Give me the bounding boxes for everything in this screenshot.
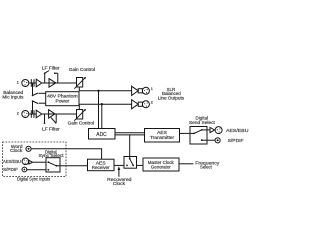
svg-text:Select: Select <box>200 164 212 170</box>
wire CH2 to ADC <box>101 104 103 128</box>
mic input connector J1 <box>22 80 29 87</box>
AES input plug <box>29 160 33 164</box>
svg-text:Gain Control: Gain Control <box>69 67 95 73</box>
label Digital Sync Select <box>38 150 64 159</box>
SPDIF output connector RCA <box>215 138 220 143</box>
Master Clock Generator box U4 <box>143 158 179 171</box>
capacitor bars CH2 <box>31 110 34 118</box>
svg-text:LF Filter: LF Filter <box>42 65 60 71</box>
svg-text:Generator: Generator <box>151 164 171 170</box>
label Word Clock <box>10 144 23 154</box>
svg-text:Receiver: Receiver <box>92 165 110 171</box>
svg-text:1: 1 <box>151 87 153 91</box>
svg-text:LF Filter: LF Filter <box>42 126 60 132</box>
svg-text:Gain Control: Gain Control <box>68 120 94 126</box>
wire frequency select <box>179 163 193 165</box>
LF filter switch CH1 <box>44 71 58 84</box>
line out connector XLR2 <box>142 101 149 108</box>
wire sync switch to AES receiver <box>56 165 87 167</box>
recovered clock pointer arrow <box>118 166 121 177</box>
label Balanced Mic Inputs <box>2 90 24 101</box>
wire word clock to AES receiver <box>31 149 102 159</box>
svg-text:Mic Inputs: Mic Inputs <box>2 95 24 101</box>
digital sync inputs dashed box <box>3 142 67 177</box>
label XLR Balanced Line Outputs <box>158 87 185 101</box>
wire recovered clock <box>114 164 124 166</box>
wire clock switch to master clock generator <box>137 164 144 166</box>
amp A2 CH1 <box>49 79 56 88</box>
svg-text:Transmitter: Transmitter <box>150 135 175 141</box>
svg-text:Clock: Clock <box>113 181 126 187</box>
svg-text:2: 2 <box>151 100 153 104</box>
svg-text:ADC: ADC <box>96 132 106 138</box>
AES EBU input connector <box>22 158 29 165</box>
line out barrel CH1 <box>138 89 142 93</box>
mic input connector J2 <box>22 111 29 118</box>
preamp A1 <box>36 79 42 87</box>
ADC box U1 <box>89 129 116 140</box>
wire SPDIF in to sync switch <box>27 169 46 171</box>
wire clock branch to clock switch <box>129 135 131 157</box>
wire AES in to sync switch <box>33 161 46 163</box>
svg-text:S/PDIF: S/PDIF <box>3 167 18 173</box>
AES Receiver box U3 <box>88 159 115 171</box>
wire CH1 to ADC <box>98 91 100 129</box>
svg-text:Clock: Clock <box>10 148 23 154</box>
amp A4 CH2 <box>49 110 55 118</box>
wire <box>29 113 36 115</box>
gain control pot CH1 <box>74 77 86 89</box>
gain control pot CH2 <box>74 109 86 121</box>
wire gain2 output <box>79 104 131 109</box>
svg-text:Digital Sync Inputs: Digital Sync Inputs <box>17 176 50 182</box>
AES EBU output connector <box>215 127 222 134</box>
wire <box>42 113 77 115</box>
svg-text:Line Outputs: Line Outputs <box>158 95 185 101</box>
wire <box>42 82 77 84</box>
wire transmitter to send select <box>180 132 195 134</box>
48V Phantom Power box <box>46 92 79 106</box>
svg-text:AES/EBU: AES/EBU <box>226 128 249 134</box>
wire to SPDIF out <box>207 139 215 141</box>
digital send select switch S1 <box>190 127 207 145</box>
line out buffer A6 <box>132 100 139 109</box>
LF filter switch CH2 <box>44 114 57 124</box>
capacitor bars CH1 <box>31 79 34 87</box>
svg-text:Power: Power <box>55 98 69 104</box>
node junction CH2 to ADC <box>101 103 103 105</box>
line out barrel CH2 <box>138 102 142 106</box>
svg-text:Send Select: Send Select <box>189 120 216 126</box>
AES EBU output plug <box>210 127 215 132</box>
phantom switch CH2 <box>32 100 46 114</box>
clock select switch S3 <box>124 157 137 169</box>
label Recovered Clock <box>107 177 132 187</box>
svg-text:S/PDIF: S/PDIF <box>228 138 244 144</box>
line out connector XLR1 <box>142 87 149 94</box>
svg-text:1: 1 <box>17 80 19 84</box>
label Digital Send Select <box>189 115 216 126</box>
wire ADC data bus upper <box>115 132 145 134</box>
label Frequency Select <box>195 160 220 170</box>
wire <box>29 82 36 84</box>
svg-text:AES/EBU: AES/EBU <box>3 159 21 165</box>
wire gain1 output <box>79 87 131 91</box>
svg-text:2: 2 <box>17 111 19 115</box>
wire to AES out <box>207 129 210 131</box>
preamp A3 <box>36 110 42 118</box>
line out buffer A5 <box>132 86 139 95</box>
wire ADC data bus lower <box>115 134 145 136</box>
digital sync select switch S2 <box>46 158 60 172</box>
AES Transmitter box U2 <box>145 129 180 143</box>
word clock connector BNC <box>26 146 31 151</box>
SPDIF input connector RCA <box>22 167 27 172</box>
node junction CH1 to ADC <box>97 90 99 92</box>
phantom switch CH1 <box>32 83 46 96</box>
